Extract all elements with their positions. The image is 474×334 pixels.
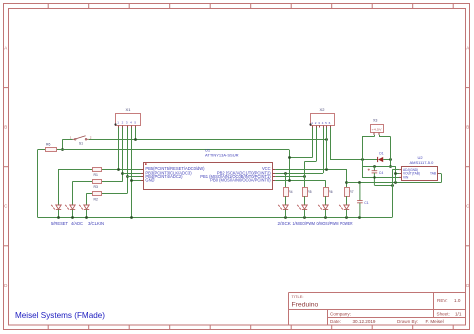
svg-text:4/ADC: 4/ADC	[71, 221, 83, 227]
frame column ticks top	[48, 4, 453, 9]
svg-text:C4: C4	[379, 171, 383, 175]
wire R5 top lead / PB1 riser	[304, 162, 306, 188]
regulator U2 body	[402, 167, 438, 181]
wire R6 right lead	[56, 149, 63, 151]
wire R4 top lead	[285, 173, 287, 188]
svg-text:1/MISO/PWM: 1/MISO/PWM	[293, 221, 316, 227]
svg-text:POWER: POWER	[340, 221, 353, 227]
LED6 (0/MOSI/PWM)	[318, 205, 328, 210]
wire resistor R5 bottom lead	[304, 196, 306, 205]
junction button net / X2 pin1	[288, 156, 291, 159]
junction rail LED7	[345, 216, 348, 219]
wire VOUT riser to VCC bus	[395, 166, 397, 182]
svg-text:TITLE:: TITLE:	[292, 294, 304, 299]
svg-text:R6: R6	[46, 142, 50, 146]
junction C4 lead / VIN row crossing	[373, 176, 375, 178]
svg-text:Company:: Company:	[330, 311, 351, 316]
frame column ticks bottom	[48, 325, 453, 330]
frame row ticks left and right	[4, 88, 471, 246]
svg-text:X1: X1	[126, 107, 132, 112]
wire LED3 anode vertical	[86, 194, 88, 206]
svg-text:Sheet:: Sheet:	[437, 311, 450, 316]
wire R1 left lead to LED1 column	[59, 169, 93, 171]
junction rail C1	[358, 216, 361, 219]
resistor R6 body	[46, 148, 57, 152]
wire X3 right pin drop	[379, 135, 381, 137]
junction GND net / X1 pin4	[130, 179, 133, 182]
svg-text:R6: R6	[328, 190, 332, 194]
junction VCC bus / C1	[358, 181, 361, 184]
junction S1 net / X2 pin5	[325, 138, 328, 141]
LED7 (POWER)	[339, 205, 349, 210]
switch S1 symbol	[73, 136, 89, 140]
resistor R4 body	[284, 188, 289, 197]
wire raw power horizontal to D1	[330, 159, 378, 161]
svg-text:F. Meisel: F. Meisel	[426, 319, 444, 324]
wire LED1 anode vertical	[58, 169, 60, 205]
wire R3 right jog horizontal	[101, 181, 123, 183]
svg-text:D1: D1	[379, 151, 383, 155]
svg-text:B: B	[466, 125, 469, 130]
junction PB1 / R5 / X2 pin2 jog	[303, 175, 306, 178]
junction PB0 / S1-R6 branch	[288, 179, 291, 182]
svg-text:B: B	[4, 125, 7, 130]
wire TAB lead	[439, 173, 441, 175]
svg-text:3/CLKIN: 3/CLKIN	[88, 221, 104, 227]
wire U2 ADJ/GND to ground riser	[392, 169, 399, 171]
svg-text:X2: X2	[320, 107, 326, 112]
svg-text:REV:: REV:	[437, 298, 448, 303]
svg-text:Meisel Systems (FMade): Meisel Systems (FMade)	[15, 310, 105, 320]
IC U1 left pin labels	[145, 166, 205, 182]
capacitor C4	[368, 166, 378, 185]
regulator U2 pin labels	[403, 168, 436, 180]
junction VIN row / C4	[373, 165, 376, 168]
wire X2 pin2 jog horizontal	[305, 161, 317, 163]
connector X3 pin stubs	[374, 133, 379, 135]
resistor R3 body	[93, 180, 102, 184]
connector X2 pin stubs	[313, 126, 331, 128]
junction C4 ground row / GND riser	[391, 184, 394, 187]
svg-text:2/SCK: 2/SCK	[278, 221, 292, 227]
wire VCC bus to regulator output	[347, 182, 441, 184]
svg-text:C: C	[4, 204, 8, 209]
svg-text:A: A	[466, 46, 469, 51]
junction PB5 net / X1 pin1	[117, 168, 120, 171]
wire S1 right to X1 pin5 and X2 pin5 net	[89, 139, 327, 141]
wire resistor R4 bottom lead	[285, 196, 287, 205]
svg-text:GND: GND	[145, 178, 154, 183]
IC U1 right pin labels	[200, 166, 271, 182]
svg-text:2: 2	[90, 135, 92, 139]
svg-text:Date:: Date:	[330, 319, 341, 324]
svg-text:Freduino: Freduino	[292, 302, 319, 309]
wire X2 pin1 riser	[312, 128, 314, 158]
resistor R6b body	[324, 188, 329, 197]
wire ground rail	[38, 217, 393, 219]
svg-text:ATTINY13A-SSUR: ATTINY13A-SSUR	[205, 153, 239, 158]
svg-text:D: D	[4, 283, 8, 288]
junction VCC / X2 pin5 riser	[325, 168, 328, 171]
svg-text:PB0 (MOSI/AIN0/OC0A/PCINT0): PB0 (MOSI/AIN0/OC0A/PCINT0)	[210, 178, 271, 183]
junction rail LED2	[71, 216, 74, 219]
wire PB2 riser to X2 pin4	[323, 128, 325, 174]
connector X1 pin stubs	[119, 126, 136, 128]
regulator U2 pin stubs	[399, 170, 439, 178]
svg-text:R4: R4	[288, 190, 292, 194]
resistor R7 body	[345, 188, 350, 197]
wire resistor R6b bottom lead	[325, 196, 327, 205]
frame row letters	[4, 46, 470, 288]
LED2 (4/ADC)	[65, 205, 75, 210]
wire X3 right branch vertical	[390, 137, 392, 166]
wire PB0 drop to R6b	[325, 180, 327, 188]
IC U1 pin stubs	[141, 170, 275, 181]
svg-text:AMS1117-5.0: AMS1117-5.0	[410, 160, 435, 165]
connector X2 body	[311, 114, 335, 126]
wire X1 pin5 vertical to S1 net	[135, 128, 137, 140]
svg-text:X3: X3	[373, 119, 377, 123]
junction rail LED1	[57, 216, 60, 219]
wire X3 left pin horizontal	[362, 136, 374, 138]
wire S1 left lead	[63, 139, 73, 141]
title block outline	[289, 293, 466, 326]
LED1 (5/RESET)	[51, 205, 61, 210]
junction PB3 net / X1 pin2 / R3	[121, 172, 124, 175]
wire R6 left lead	[38, 149, 46, 151]
svg-text:5/RESET: 5/RESET	[51, 221, 68, 227]
wire X1 pin2 / R3 jog vertical (PB3 net)	[122, 128, 124, 182]
wire PB1 net from U1	[275, 176, 304, 178]
junction VCC bus / R7	[345, 181, 348, 184]
wire PB0 net vertical drop	[289, 150, 291, 181]
resistor R2 body	[93, 192, 102, 196]
junction rail LED3	[85, 216, 88, 219]
junction raw power / X3 left pin	[361, 158, 364, 161]
wire R6/S1 node to PB0 long horizontal	[63, 149, 289, 151]
svg-text:1: 1	[70, 135, 72, 139]
wire S1 left drop to R6 node	[62, 139, 64, 149]
svg-text:+4,5V: +4,5V	[372, 127, 382, 131]
LED3 (3/CLKIN)	[79, 205, 89, 210]
svg-text:S1: S1	[79, 142, 83, 146]
connector X1 body	[116, 114, 141, 126]
svg-text:12345: 12345	[117, 121, 138, 125]
wire GND net to U1 GND pin	[131, 180, 143, 182]
wire resistor R7 bottom lead	[346, 196, 348, 205]
diode D1	[378, 157, 384, 162]
svg-text:TAB: TAB	[430, 172, 436, 176]
wire PB2 net from U1	[275, 173, 323, 175]
svg-text:VIN: VIN	[403, 176, 409, 180]
wire LED2 anode vertical	[72, 181, 74, 205]
wire R6 to ground rail vertical	[37, 150, 39, 218]
junction VIN row / right branch	[389, 165, 392, 168]
wire X3 left pin drop	[374, 135, 376, 137]
junction PB4 net / X1 pin3 / R2	[126, 175, 129, 178]
wire PB4 net to U1 pin	[127, 176, 144, 178]
wire X2 pin5 riser (VCC, through S1 row)	[326, 128, 328, 170]
junction VCC bus / VOUT riser	[394, 181, 397, 184]
wire PB3 net to U1 pin	[123, 173, 144, 175]
wire X1 pin4 vertical (GND net)	[131, 128, 133, 218]
wire X2 pin6 to raw power net	[330, 128, 332, 160]
svg-text:A: A	[4, 46, 7, 51]
junction rail LED5	[303, 216, 306, 219]
wire X2 pin1 jog to button net	[289, 157, 313, 159]
connector X3 body	[371, 125, 384, 133]
svg-text:R2: R2	[94, 197, 98, 201]
junction rail LED4	[284, 216, 287, 219]
wire U2 VOUT stub	[396, 173, 400, 175]
wire X3 left branch vertical	[362, 137, 364, 178]
wire R2 left lead to LED3 column	[86, 193, 92, 195]
resistor R5 body	[303, 188, 308, 197]
LED4 (2/SCK)	[278, 205, 288, 210]
svg-text:0/MOSI/PWM: 0/MOSI/PWM	[317, 221, 339, 227]
svg-text:1/1: 1/1	[455, 311, 462, 316]
wire PB0 net from U1	[275, 180, 326, 182]
svg-text:1.0: 1.0	[454, 298, 461, 303]
svg-text:R5: R5	[307, 190, 311, 194]
wire C4 ground row	[374, 185, 392, 187]
wire X1 pin3 / R2 jog vertical (PB4 net)	[127, 128, 129, 194]
junction rail LED6	[324, 216, 327, 219]
svg-text:R3: R3	[94, 185, 98, 189]
wire ground riser	[392, 170, 394, 218]
svg-text:R1: R1	[94, 173, 98, 177]
junction S1 net / X1 pin5	[134, 138, 137, 141]
junction R6 / S1 / PB0 net	[61, 148, 64, 151]
LED5 (1/MISO/PWM)	[297, 205, 307, 210]
IC U1 pin-1 mark	[145, 163, 147, 165]
wire X3 right pin horizontal	[379, 136, 391, 138]
junction VOUT / riser	[394, 172, 397, 175]
capacitor C1	[357, 183, 363, 218]
wire D1 cathode to X3 right branch	[383, 159, 391, 161]
junction rail U1 GND	[130, 216, 133, 219]
wire TAB loop vertical	[441, 174, 443, 183]
wire VIN upper row	[362, 166, 396, 168]
wire R2 right jog horizontal	[101, 193, 127, 195]
IC U1 body	[144, 163, 273, 190]
wire X1 pin1 to PB5 net	[118, 128, 120, 170]
wire VCC net from U1	[275, 169, 347, 171]
wire VCC drop to R7	[346, 169, 348, 188]
svg-text:123456: 123456	[311, 121, 332, 125]
svg-text:Drawn By:: Drawn By:	[397, 319, 418, 324]
junction D1 / X3 right pin	[389, 158, 392, 161]
svg-text:C1: C1	[364, 201, 368, 205]
wire R3 left lead to LED2 column	[73, 181, 93, 183]
junction PB2 / R4	[284, 172, 287, 175]
wire R1 right to U1 PB5 pin	[101, 169, 144, 171]
connector X1 pin 1 marker	[114, 123, 116, 125]
svg-text:30.12.2019: 30.12.2019	[353, 319, 376, 324]
connector X2 pin 1 marker	[309, 123, 311, 125]
svg-text:R7: R7	[349, 190, 353, 194]
wire X2 pin2 riser	[316, 128, 318, 162]
wire VIN row to U2	[362, 177, 402, 179]
resistor R1 body	[93, 168, 102, 172]
